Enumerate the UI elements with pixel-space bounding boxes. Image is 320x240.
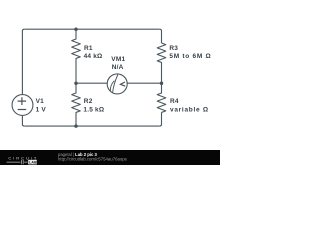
- VM1 meter needle curve: [110, 75, 118, 93]
- svg-text:VM1: VM1: [111, 56, 125, 63]
- wire: top horizontal: [24, 28, 160, 30]
- footer logo wire with capacitor: [7, 160, 28, 164]
- svg-text:N/A: N/A: [112, 64, 124, 71]
- voltage source V1 circle: [12, 95, 33, 116]
- svg-text:1 V: 1 V: [36, 107, 47, 114]
- svg-text:R2: R2: [84, 98, 93, 105]
- wire: VM1 right lead: [127, 82, 162, 84]
- svg-text:V1: V1: [36, 98, 45, 105]
- svg-text:http://circuitlab.com/c5754au7: http://circuitlab.com/c5754au76aope: [58, 157, 128, 162]
- junction node at R1/R2/VM1 (76,83.2): [74, 81, 78, 85]
- V1 plus sign: [18, 97, 27, 105]
- svg-text:variable Ω: variable Ω: [170, 107, 209, 114]
- resistor R3: [157, 43, 166, 83]
- wire: bottom horizontal: [24, 125, 160, 127]
- svg-text:5M to 6M Ω: 5M to 6M Ω: [169, 53, 211, 60]
- VM1 arrowhead <: [120, 82, 125, 86]
- voltmeter VM1 circle: [107, 74, 127, 94]
- junction node at R2 bottom (76,126.1): [74, 124, 78, 128]
- junction node at R1 top (76,29.2): [74, 27, 78, 31]
- resistor R1: [72, 29, 81, 83]
- wire: top-right corner down to R3: [160, 29, 162, 43]
- resistor R2: [72, 83, 81, 126]
- svg-text:1.5 kΩ: 1.5 kΩ: [83, 107, 104, 114]
- svg-text:R4: R4: [170, 98, 179, 105]
- V1 minus sign: [18, 109, 27, 111]
- svg-text:LAB: LAB: [29, 161, 37, 165]
- footer logo LAB box: [28, 160, 37, 165]
- wire: VM1 left lead: [76, 82, 108, 84]
- svg-text:44 kΩ: 44 kΩ: [84, 53, 103, 60]
- wire: left branch from V1 bottom to bottom-left corner: [22, 115, 24, 126]
- resistor R4: [157, 83, 166, 112]
- wire: bottom-right corner up to R4: [160, 112, 162, 126]
- svg-text:R1: R1: [84, 45, 93, 52]
- wire: left branch from top-left corner down to V1 top: [22, 29, 24, 94]
- footer bar: [0, 150, 220, 165]
- svg-text:R3: R3: [169, 45, 178, 52]
- junction node at R3/R4/VM1 (161.5,83.2): [160, 81, 164, 85]
